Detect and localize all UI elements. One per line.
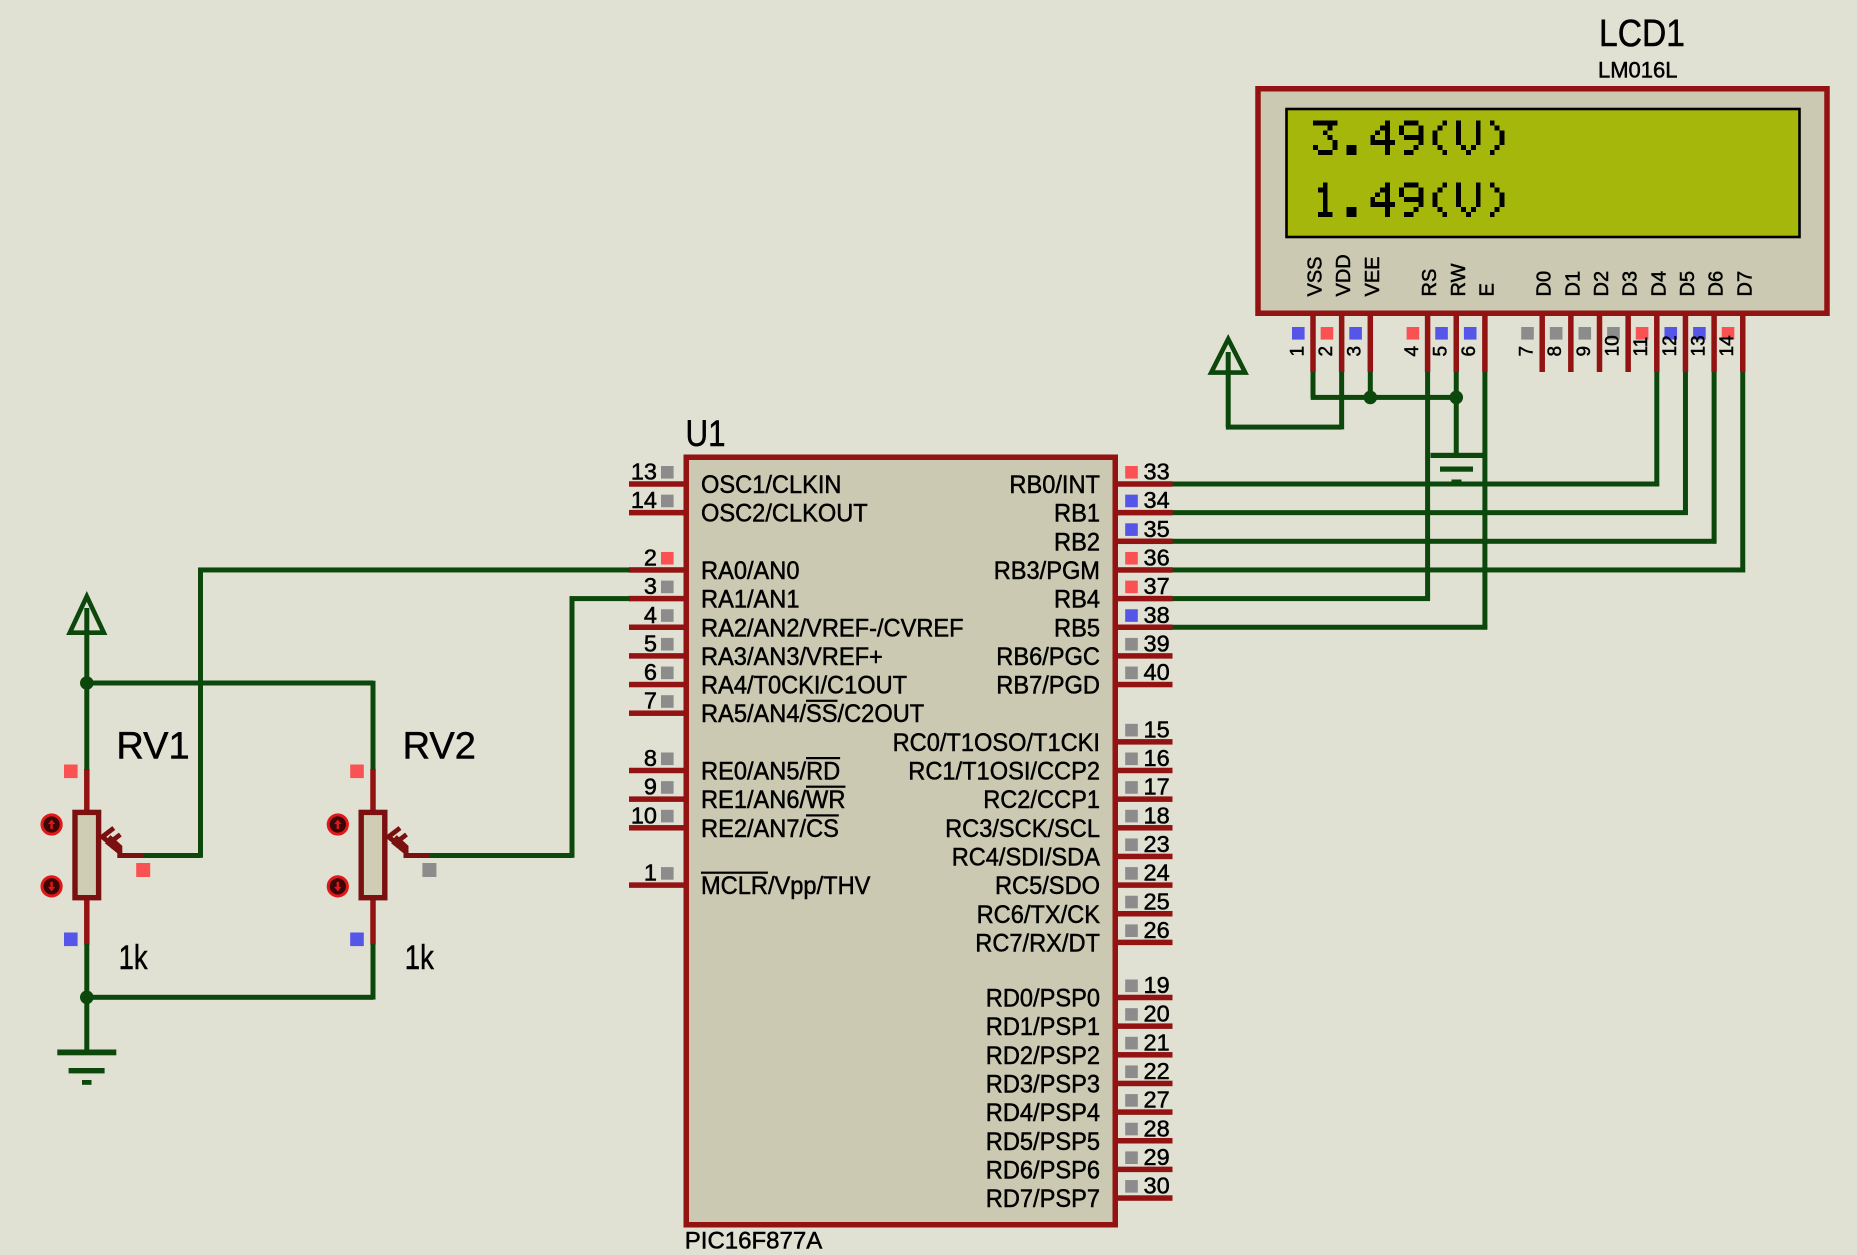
U1 pin 26 (RC7/RX/DT) right side	[1118, 940, 1173, 946]
wire RW to ground	[1454, 397, 1459, 455]
U1 pin 4 (RA2/AN2/VREF-/CVREF) left side	[629, 625, 684, 631]
svg-text:7: 7	[644, 688, 657, 714]
svg-text:U1: U1	[686, 413, 726, 454]
U1 pin 34 (RB1) right side	[1118, 510, 1173, 516]
wire down to RV2 top	[371, 681, 376, 770]
wire LCD pin3 VEE down	[1368, 372, 1373, 397]
svg-text:D2: D2	[1591, 271, 1613, 297]
svg-text:2: 2	[644, 544, 657, 570]
wire RA1 horizontal to U1 pin 3	[570, 596, 630, 601]
U1 pin 13 (OSC1/CLKIN) left side	[629, 481, 684, 487]
wire riser to RA1	[570, 596, 575, 858]
svg-text:OSC2/CLKOUT: OSC2/CLKOUT	[701, 500, 868, 528]
U1 pin 22 (RD3/PSP3) right side	[1118, 1081, 1173, 1087]
svg-text:MCLR/Vpp/THV: MCLR/Vpp/THV	[701, 872, 871, 900]
LCD display text line 2: 1.49(V)	[1318, 183, 1505, 217]
svg-text:1k: 1k	[119, 939, 149, 977]
svg-text:3: 3	[1345, 346, 1366, 357]
svg-text:RA1/AN1: RA1/AN1	[701, 586, 800, 614]
svg-text:6: 6	[1459, 346, 1480, 357]
wire LCD pin6 E down (RB5 net)	[1482, 372, 1487, 630]
svg-text:D6: D6	[1706, 271, 1728, 297]
U1 pin 16 (RC1/T1OSI/CCP2) right side	[1118, 768, 1173, 774]
svg-text:RV2: RV2	[403, 726, 476, 768]
svg-text:RB2: RB2	[1054, 528, 1100, 556]
svg-text:RB1: RB1	[1054, 500, 1100, 528]
svg-text:9: 9	[1574, 346, 1595, 357]
svg-text:17: 17	[1144, 774, 1170, 800]
wire RB3/PGM to D7	[1172, 567, 1745, 572]
svg-text:RS: RS	[1419, 269, 1441, 297]
svg-text:22: 22	[1144, 1058, 1170, 1084]
LCD screen	[1287, 109, 1800, 237]
potentiometer RV2	[370, 769, 376, 812]
svg-text:36: 36	[1144, 544, 1170, 570]
wire LCD pin14 D7 down (RB3 net)	[1740, 372, 1745, 572]
svg-text:RC1/T1OSI/CCP2: RC1/T1OSI/CCP2	[908, 758, 1100, 786]
svg-text:37: 37	[1144, 573, 1170, 599]
svg-text:RC4/SDI/SDA: RC4/SDI/SDA	[952, 843, 1101, 871]
U1 pin 17 (RC2/CCP1) right side	[1118, 796, 1173, 802]
svg-text:15: 15	[1144, 716, 1170, 742]
svg-text:10: 10	[1602, 335, 1623, 356]
wire RV1 bottom down	[84, 944, 89, 997]
svg-text:34: 34	[1144, 487, 1170, 513]
svg-text:D5: D5	[1677, 271, 1699, 297]
svg-text:20: 20	[1144, 1001, 1170, 1027]
U1 pin 36 (RB3/PGM) right side	[1118, 567, 1173, 573]
wire LCD pin1 VSS down	[1311, 372, 1316, 397]
junction power node	[80, 676, 94, 690]
svg-text:4: 4	[644, 602, 657, 628]
svg-text:D1: D1	[1562, 271, 1584, 297]
svg-text:RC3/SCK/SCL: RC3/SCK/SCL	[945, 815, 1100, 843]
potentiometer RV1	[84, 769, 90, 812]
wire RB2 to D6	[1172, 539, 1716, 544]
wire ground node to RV2 bottom	[87, 995, 373, 1000]
svg-text:RC0/T1OSO/T1CKI: RC0/T1OSO/T1CKI	[893, 729, 1100, 757]
svg-text:9: 9	[644, 774, 657, 800]
junction RW/gnd bus	[1449, 391, 1463, 405]
svg-text:6: 6	[644, 659, 657, 685]
wire RV2 bottom down	[371, 944, 376, 1000]
svg-text:RW: RW	[1448, 263, 1470, 296]
svg-text:4: 4	[1402, 346, 1423, 357]
svg-text:7: 7	[1517, 346, 1538, 357]
svg-text:RA2/AN2/VREF-/CVREF: RA2/AN2/VREF-/CVREF	[701, 614, 964, 642]
svg-text:RC7/RX/DT: RC7/RX/DT	[975, 929, 1100, 957]
svg-text:10: 10	[631, 802, 657, 828]
U1 pin 38 (RB5) right side	[1118, 625, 1173, 631]
svg-text:RD6/PSP6: RD6/PSP6	[986, 1156, 1100, 1184]
svg-text:D7: D7	[1734, 271, 1756, 297]
svg-text:8: 8	[644, 745, 657, 771]
svg-text:RD3/PSP3: RD3/PSP3	[986, 1070, 1100, 1098]
junction VEE/gnd bus	[1364, 391, 1378, 405]
U1 pin 2 (RA0/AN0) left side	[629, 567, 684, 573]
U1 pin 10 (RE2/AN7/CS) left side	[629, 825, 684, 831]
svg-text:16: 16	[1144, 745, 1170, 771]
svg-text:40: 40	[1144, 659, 1170, 685]
svg-text:RB7/PGD: RB7/PGD	[996, 672, 1100, 700]
U1 pin 28 (RD5/PSP5) right side	[1118, 1138, 1173, 1144]
U1 pin 33 (RB0/INT) right side	[1118, 481, 1173, 487]
wire RB0/INT to D4	[1172, 482, 1659, 487]
wire LCD pin12 D5 down (RB1 net)	[1683, 372, 1688, 515]
svg-text:D3: D3	[1620, 271, 1642, 297]
U1 pin 27 (RD4/PSP4) right side	[1118, 1109, 1173, 1115]
U1 pin 18 (RC3/SCK/SCL) right side	[1118, 825, 1173, 831]
wire RA0 horizontal to U1 pin 2	[198, 567, 630, 572]
wire VDD horizontal to pin 2	[1226, 425, 1342, 430]
ground symbol below RV1	[57, 1050, 116, 1085]
svg-text:RB6/PGC: RB6/PGC	[996, 643, 1100, 671]
svg-text:27: 27	[1144, 1087, 1170, 1113]
svg-text:RD0/PSP0: RD0/PSP0	[986, 985, 1100, 1013]
wire RB5 to E	[1172, 625, 1487, 630]
wire power node to RV2	[87, 681, 373, 686]
U1 pin 30 (RD7/PSP7) right side	[1118, 1195, 1173, 1201]
svg-text:24: 24	[1144, 860, 1170, 886]
svg-text:PIC16F877A: PIC16F877A	[685, 1228, 822, 1255]
svg-text:8: 8	[1545, 346, 1566, 357]
svg-text:19: 19	[1144, 972, 1170, 998]
U1 pin 35 (RB2) right side	[1118, 539, 1173, 545]
svg-text:33: 33	[1144, 459, 1170, 485]
U1 pin 9 (RE1/AN6/WR) left side	[629, 796, 684, 802]
U1 pin 7 (RA5/AN4/SS/C2OUT) left side	[629, 710, 684, 716]
ground symbol near LCD (RW)	[1431, 453, 1483, 484]
svg-text:RE1/AN6/WR: RE1/AN6/WR	[701, 786, 845, 814]
svg-text:RB4: RB4	[1054, 586, 1100, 614]
svg-text:E: E	[1476, 283, 1498, 296]
U1 pin 19 (RD0/PSP0) right side	[1118, 995, 1173, 1001]
svg-text:28: 28	[1144, 1115, 1170, 1141]
svg-text:RB3/PGM: RB3/PGM	[994, 557, 1100, 585]
svg-text:5: 5	[1431, 346, 1452, 357]
svg-text:13: 13	[631, 459, 657, 485]
svg-text:12: 12	[1660, 335, 1681, 356]
wire VDD up to LCD pin 2	[1339, 372, 1344, 429]
svg-text:14: 14	[1717, 335, 1738, 357]
svg-text:1: 1	[1287, 346, 1308, 357]
svg-text:3: 3	[644, 573, 657, 599]
svg-text:39: 39	[1144, 630, 1170, 656]
svg-text:1k: 1k	[405, 939, 435, 977]
U1 pin 29 (RD6/PSP6) right side	[1118, 1167, 1173, 1173]
svg-text:38: 38	[1144, 602, 1170, 628]
wire RB1 to D5	[1172, 510, 1688, 515]
U1 pin 1 (MCLR/Vpp/THV) left side	[629, 882, 684, 888]
svg-text:18: 18	[1144, 802, 1170, 828]
U1 pin 6 (RA4/T0CKI/C1OUT) left side	[629, 682, 684, 688]
svg-text:11: 11	[1631, 337, 1652, 357]
svg-text:1: 1	[644, 860, 657, 886]
wire power arrow stem	[84, 608, 89, 683]
U1 PIC16F877A body	[686, 457, 1115, 1225]
wire riser to RA0	[198, 568, 203, 858]
U1 pin 24 (RC5/SDO) right side	[1118, 882, 1173, 888]
svg-text:RD2/PSP2: RD2/PSP2	[986, 1042, 1100, 1070]
power symbol (VDD arrow) near RV1	[70, 596, 104, 632]
svg-text:RD5/PSP5: RD5/PSP5	[986, 1128, 1100, 1156]
svg-text:29: 29	[1144, 1144, 1170, 1170]
svg-text:RE0/AN5/RD: RE0/AN5/RD	[701, 758, 840, 786]
svg-text:RD4/PSP4: RD4/PSP4	[986, 1099, 1100, 1127]
svg-text:14: 14	[631, 487, 657, 513]
U1 pin 40 (RB7/PGD) right side	[1118, 682, 1173, 688]
svg-text:D0: D0	[1534, 271, 1556, 297]
svg-text:2: 2	[1316, 346, 1337, 357]
U1 pin 20 (RD1/PSP1) right side	[1118, 1023, 1173, 1029]
svg-text:RB5: RB5	[1054, 614, 1100, 642]
svg-text:VDD: VDD	[1333, 254, 1355, 296]
power symbol (VDD arrow) near LCD	[1211, 339, 1245, 373]
U1 pin 15 (RC0/T1OSO/T1CKI) right side	[1118, 739, 1173, 745]
svg-text:RC2/CCP1: RC2/CCP1	[983, 786, 1100, 814]
junction ground node	[80, 991, 94, 1005]
wire VDD arrow stem	[1226, 352, 1231, 427]
wire RB4 to RS	[1172, 596, 1430, 601]
wire RV2 wiper to riser	[429, 853, 572, 858]
LCD display text line 1: 3.49(V)	[1313, 121, 1505, 155]
U1 pin 5 (RA3/AN3/VREF+) left side	[629, 653, 684, 659]
svg-text:RC6/TX/CK: RC6/TX/CK	[977, 901, 1101, 929]
U1 pin 21 (RD2/PSP2) right side	[1118, 1052, 1173, 1058]
U1 pin 14 (OSC2/CLKOUT) left side	[629, 510, 684, 516]
svg-text:RE2/AN7/CS: RE2/AN7/CS	[701, 815, 839, 843]
U1 pin 23 (RC4/SDI/SDA) right side	[1118, 854, 1173, 860]
svg-text:RD1/PSP1: RD1/PSP1	[986, 1013, 1100, 1041]
wire power node to RV1 top	[84, 683, 89, 770]
svg-text:LM016L: LM016L	[1598, 58, 1678, 83]
wire gnd bus VSS-VEE-RW	[1311, 395, 1457, 400]
svg-text:RB0/INT: RB0/INT	[1009, 471, 1100, 499]
svg-text:25: 25	[1144, 888, 1170, 914]
wire LCD pin5 RW down	[1454, 372, 1459, 397]
wire RV1 wiper to riser	[143, 853, 201, 858]
U1 pin 3 (RA1/AN1) left side	[629, 596, 684, 602]
svg-text:21: 21	[1144, 1029, 1170, 1055]
svg-text:RV1: RV1	[116, 726, 189, 768]
svg-text:D4: D4	[1648, 271, 1670, 297]
U1 pin 39 (RB6/PGC) right side	[1118, 653, 1173, 659]
wire LCD pin13 D6 down (RB2 net)	[1712, 372, 1717, 544]
svg-text:RA4/T0CKI/C1OUT: RA4/T0CKI/C1OUT	[701, 672, 907, 700]
U1 pin 25 (RC6/TX/CK) right side	[1118, 911, 1173, 917]
svg-text:30: 30	[1144, 1173, 1170, 1199]
svg-text:35: 35	[1144, 516, 1170, 542]
svg-text:RA3/AN3/VREF+: RA3/AN3/VREF+	[701, 643, 883, 671]
svg-text:26: 26	[1144, 917, 1170, 943]
svg-text:RC5/SDO: RC5/SDO	[995, 872, 1100, 900]
LCD LM016L body	[1258, 89, 1827, 314]
svg-text:VEE: VEE	[1362, 256, 1384, 296]
svg-text:23: 23	[1144, 831, 1170, 857]
U1 pin 37 (RB4) right side	[1118, 596, 1173, 602]
svg-text:RD7/PSP7: RD7/PSP7	[986, 1185, 1100, 1213]
U1 pin 8 (RE0/AN5/RD) left side	[629, 768, 684, 774]
svg-text:OSC1/CLKIN: OSC1/CLKIN	[701, 471, 842, 499]
svg-text:VSS: VSS	[1305, 256, 1327, 296]
svg-text:13: 13	[1688, 335, 1709, 356]
svg-text:5: 5	[644, 630, 657, 656]
wire LCD pin11 D4 down (RB0 net)	[1654, 372, 1659, 486]
svg-text:LCD1: LCD1	[1599, 13, 1685, 55]
svg-text:RA5/AN4/SS/C2OUT: RA5/AN4/SS/C2OUT	[701, 700, 924, 728]
wire LCD pin4 RS down (RB4 net)	[1425, 372, 1430, 601]
svg-text:RA0/AN0: RA0/AN0	[701, 557, 800, 585]
wire ground node to ground symbol	[84, 997, 89, 1051]
